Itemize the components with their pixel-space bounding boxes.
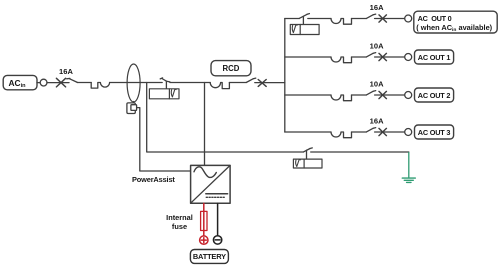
breaker CB2 (RCD): [210, 83, 229, 89]
wire PowerAssist tap (main line to relay K3 row): [147, 83, 304, 153]
svg-text:10A: 10A: [370, 42, 385, 51]
terminal circle AC OUT 3: [405, 129, 412, 136]
wire CB4 to switch S6: [352, 56, 367, 58]
wire S2 to RCD breaker: [170, 82, 210, 84]
terminal circle battery positive: [200, 236, 208, 244]
svg-text:16A: 16A: [59, 67, 74, 76]
wire S7 to terminal (row 2): [375, 94, 405, 96]
wire S1 to breaker CB1: [77, 82, 91, 84]
svg-text:PowerAssist: PowerAssist: [132, 175, 175, 184]
terminal circle battery negative: [213, 236, 221, 244]
wire S4 to breaker CB3: [308, 18, 331, 20]
wire battery negative: [217, 203, 219, 235]
fuse F6 (row 3): [379, 128, 386, 135]
fuse F1 16A: [56, 78, 65, 87]
relay K2: [290, 25, 319, 35]
wire bus to breaker CB5 (row 2): [285, 94, 331, 96]
wire battery positive (red): [203, 203, 205, 235]
svg-text:16A: 16A: [370, 3, 385, 12]
wire ground drop (green): [408, 153, 410, 178]
wire bus to breaker CB6 (row 3): [285, 131, 331, 133]
relay K1: [149, 89, 179, 99]
svg-text:AC OUT 3: AC OUT 3: [418, 128, 451, 137]
wire CT sensor to inverter (PowerAssist sense lead): [137, 108, 191, 171]
terminal circle AC OUT 2: [405, 92, 412, 99]
switch S9 (ground relay contact): [304, 148, 313, 159]
wire CB1 to switch S2 (through CT): [110, 82, 163, 84]
internal fuse (red): [201, 211, 207, 230]
switch S3 (RCD contact): [246, 78, 256, 82]
wire terminal to switch S1: [47, 82, 69, 84]
terminal box ACin: [3, 75, 37, 89]
switch S1: [67, 78, 78, 82]
ground symbol: [402, 178, 415, 182]
label Internal fuse: [166, 213, 193, 231]
switch S6 (row 1): [366, 53, 375, 57]
fuse F4 (row 1): [379, 53, 386, 60]
terminal circle AC OUT 1: [405, 54, 412, 61]
svg-text:AC OUT 0: AC OUT 0: [418, 14, 452, 23]
wire S6 to terminal (row 1): [375, 56, 405, 58]
fuse F2: [258, 80, 266, 87]
circuit breaker CB3 (row 0): [331, 19, 352, 25]
CT sensor: [127, 102, 137, 114]
wire CB6 to switch S8: [352, 131, 367, 133]
relay K3 (ground relay): [293, 159, 322, 168]
circuit breaker CB1: [91, 83, 109, 89]
wire S9 to ground drop: [311, 151, 409, 153]
wire ACin box to terminal: [37, 82, 40, 84]
terminal circle ACin: [40, 79, 47, 86]
svg-text:Internal: Internal: [166, 213, 193, 222]
current transformer CT1: [127, 64, 140, 102]
switch S5 (row 0): [366, 14, 375, 18]
inverter/charger U1: [191, 165, 231, 203]
svg-text:RCD: RCD: [223, 64, 240, 73]
wire S5 to terminal (row 0): [375, 18, 405, 20]
box RCD: [211, 61, 251, 76]
terminal box BATTERY: [190, 250, 228, 264]
wire junction to inverter AC input: [204, 83, 206, 166]
switch S7 (row 2): [366, 91, 375, 95]
svg-text:10A: 10A: [370, 80, 385, 89]
svg-text:AC OUT 1: AC OUT 1: [418, 53, 451, 62]
circuit breaker CB6 (row 3): [331, 132, 352, 138]
terminal box AC OUT 0: [414, 11, 497, 33]
switch S4 (AC OUT 0 relay contact): [299, 14, 309, 25]
terminal box AC OUT 3: [415, 125, 454, 139]
circuit breaker CB5 (row 2): [331, 95, 352, 101]
terminal box AC OUT 1: [415, 50, 454, 64]
fuse F5 (row 2): [379, 91, 386, 98]
wire output bus: [284, 19, 286, 133]
wire bus to switch S4 (row 0): [285, 18, 300, 20]
wire CB5 to switch S7: [352, 94, 367, 96]
wire S8 to terminal (row 3): [375, 131, 405, 133]
switch S2 (input transfer contact): [160, 78, 170, 89]
wire S3 to bus: [255, 82, 285, 84]
wire bus to breaker CB4 (row 1): [285, 56, 331, 58]
svg-text:BATTERY: BATTERY: [193, 252, 226, 261]
terminal circle AC OUT 0: [405, 15, 412, 22]
switch S8 (row 3): [366, 128, 375, 132]
svg-text:fuse: fuse: [172, 222, 187, 231]
fuse F3 (row 0): [379, 15, 386, 22]
wire CB2 to switch S3: [229, 82, 246, 84]
terminal box AC OUT 2: [415, 88, 454, 102]
svg-text:AC OUT 2: AC OUT 2: [418, 91, 451, 100]
svg-text:16A: 16A: [370, 117, 385, 126]
wire CB3 to switch S5: [352, 18, 367, 20]
circuit breaker CB4 (row 1): [331, 57, 352, 63]
